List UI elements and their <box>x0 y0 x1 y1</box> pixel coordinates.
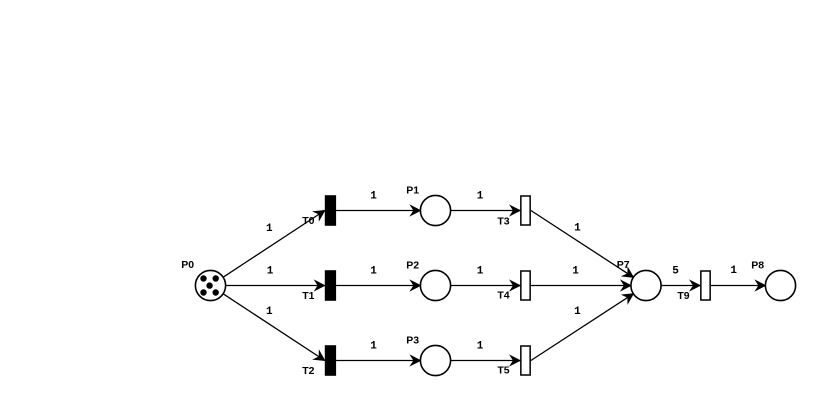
wire P7 to T9 <box>661 285 700 287</box>
svg-text:1: 1 <box>574 306 581 318</box>
place P0 <box>195 270 225 300</box>
svg-text:1: 1 <box>574 223 581 235</box>
transition T5 <box>521 346 530 375</box>
svg-text:T1: T1 <box>302 290 314 302</box>
transition T1 <box>325 270 336 301</box>
svg-text:1: 1 <box>266 306 273 318</box>
svg-text:1: 1 <box>477 266 484 278</box>
transition T0 <box>325 195 336 226</box>
svg-text:1: 1 <box>730 265 737 277</box>
place P8 <box>765 270 795 300</box>
svg-text:T4: T4 <box>497 290 509 302</box>
svg-text:1: 1 <box>572 266 579 278</box>
wire P2 to T4 <box>451 285 521 287</box>
wire T4 to P7 <box>531 285 631 287</box>
transition T9 <box>701 271 710 300</box>
transition T2 <box>325 345 336 376</box>
svg-text:T5: T5 <box>497 365 509 377</box>
svg-text:P7: P7 <box>617 259 630 271</box>
svg-text:1: 1 <box>370 341 377 353</box>
wire T9 to P8 <box>711 285 766 287</box>
svg-text:T9: T9 <box>677 290 689 302</box>
svg-text:T0: T0 <box>302 215 314 227</box>
place P1 <box>420 195 450 225</box>
svg-text:1: 1 <box>370 191 377 203</box>
place P2 <box>420 270 450 300</box>
svg-text:P0: P0 <box>181 259 194 271</box>
place P7 <box>631 270 661 300</box>
wire T3 to P7 <box>531 211 634 278</box>
svg-text:1: 1 <box>477 341 484 353</box>
wire T1 to P2 <box>336 285 420 287</box>
svg-text:1: 1 <box>477 191 484 203</box>
svg-text:1: 1 <box>266 223 273 235</box>
svg-text:1: 1 <box>370 266 377 278</box>
svg-text:T2: T2 <box>302 365 314 377</box>
svg-text:5: 5 <box>672 266 679 278</box>
svg-text:T3: T3 <box>497 215 509 227</box>
svg-text:P3: P3 <box>406 335 419 347</box>
wire T2 to P3 <box>336 360 420 362</box>
svg-text:P8: P8 <box>751 260 764 272</box>
wire P0 to T2 <box>223 294 325 361</box>
svg-text:P2: P2 <box>406 260 419 272</box>
transition T4 <box>521 271 530 300</box>
svg-text:1: 1 <box>267 266 274 278</box>
wire P0 to T1 <box>226 285 325 287</box>
wire P1 to T3 <box>451 210 521 212</box>
wire P3 to T5 <box>451 360 521 362</box>
wire T5 to P7 <box>531 294 634 361</box>
wire T0 to P1 <box>336 210 420 212</box>
transition T3 <box>521 196 530 225</box>
place P3 <box>420 345 450 375</box>
wire P0 to T0 <box>223 211 325 278</box>
svg-text:P1: P1 <box>406 185 419 197</box>
